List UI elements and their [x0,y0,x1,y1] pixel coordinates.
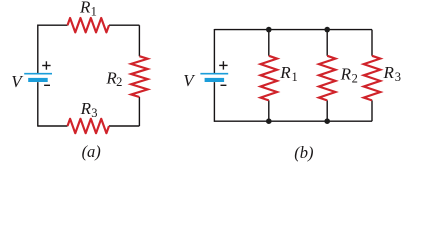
svg-text:(b): (b) [294,143,313,162]
svg-text:R: R [79,0,91,16]
svg-text:R: R [340,64,352,83]
svg-text:1: 1 [292,70,298,84]
svg-text:R: R [383,63,395,82]
svg-text:V: V [11,72,24,91]
svg-text:3: 3 [395,70,401,84]
svg-text:3: 3 [91,106,97,120]
svg-text:V: V [183,71,196,90]
svg-text:2: 2 [352,71,358,85]
svg-text:1: 1 [91,4,97,18]
svg-text:R: R [80,99,92,118]
svg-text:R: R [279,63,291,82]
svg-text:2: 2 [116,75,122,89]
svg-text:(a): (a) [82,142,101,161]
